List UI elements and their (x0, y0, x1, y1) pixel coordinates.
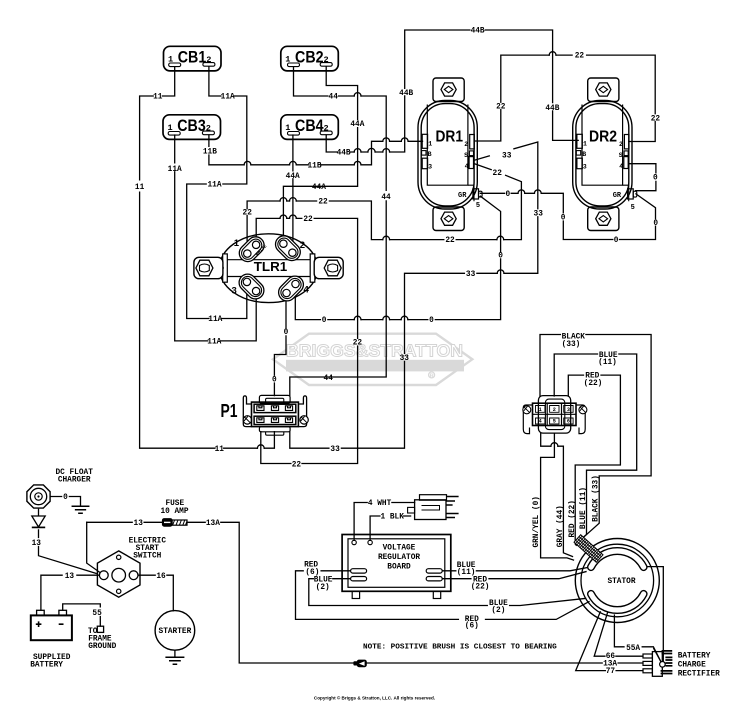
svg-text:44: 44 (329, 94, 339, 102)
svg-text:R: R (430, 373, 434, 379)
svg-text:22: 22 (445, 237, 455, 245)
svg-text:DR2: DR2 (589, 129, 617, 146)
wire hop on net 44 over 44A vertical at x=357.6 (354, 93, 361, 96)
svg-text:S: S (464, 152, 468, 159)
supplied battery (31, 610, 72, 640)
svg-text:22: 22 (651, 116, 661, 124)
wire net 0 : DR2 pin4 loop to DR2 GR (629, 164, 656, 191)
svg-text:11A: 11A (207, 339, 221, 347)
wire net 13 : battery plus to start switch (41, 575, 99, 610)
wire hops on net 22 at 283.4,292.9 (y=201) and 386.2,500.3 (y=239.6) (280, 198, 504, 240)
svg-text:4: 4 (304, 284, 310, 295)
svg-text:33: 33 (502, 152, 512, 160)
svg-text:0: 0 (63, 494, 68, 502)
svg-text:11A: 11A (221, 94, 235, 102)
svg-text:6: 6 (567, 418, 570, 424)
wire stator top-right tip to rectifier input (643, 567, 663, 662)
wire BLACK (33) : connector pin1 loop to stator bundle (540, 335, 651, 540)
TLR1 slot 4 (275, 273, 307, 305)
svg-text:44A: 44A (312, 184, 326, 192)
wire net 22 : TLR1 slot1 lower circle to DR1 pin4 (247, 164, 521, 251)
svg-text:11B: 11B (307, 162, 321, 170)
connector J3 (engine harness plug at regulator) (408, 495, 459, 520)
wire RED (22) : connector pin3 loop to stator bundle (568, 375, 620, 545)
wire net 33 : DR1 pin S diagonal down to P1 bottom-right pin (290, 142, 538, 448)
svg-text:44A: 44A (350, 121, 364, 129)
svg-text:(2): (2) (491, 607, 505, 615)
svg-text:B: B (582, 151, 586, 158)
duplex receptacle DR2 (573, 78, 637, 231)
wire net 66 : rectifier to stator (594, 612, 643, 656)
TLR1 slot 1 (236, 233, 268, 265)
stator wire bundle hatched band (574, 535, 603, 563)
svg-text:CB1: CB1 (178, 48, 207, 67)
svg-text:22: 22 (493, 170, 503, 178)
wire hops on net 44B at x=357.6,371.5,386.2 (354, 148, 389, 152)
svg-text:STARTER: STARTER (159, 628, 192, 636)
svg-text:2: 2 (324, 124, 329, 134)
svg-text:(11): (11) (598, 359, 617, 367)
wire hops on GR 0-line at 521.4,537.8 (518, 190, 541, 193)
wire net 0 : TLR1 slot4 right circle to DR1 GR via right vertical (295, 196, 500, 319)
svg-text:2: 2 (324, 55, 329, 65)
connector J2 (stator harness 6-pin) (523, 396, 587, 434)
svg-text:55A: 55A (626, 645, 640, 653)
wire net 44 : CB2 pin1 down to P1 top-right pin (290, 67, 386, 396)
svg-text:S: S (619, 152, 623, 159)
svg-text:3: 3 (583, 164, 587, 171)
battery charge rectifier (643, 648, 672, 676)
wire BLUE (2) : regulator left-bottom terminal loop to stator lower brush (309, 579, 586, 606)
wire net 0 : charger to ground (51, 497, 81, 507)
circuit breaker CB4 (281, 115, 339, 140)
svg-text:11A: 11A (208, 316, 222, 324)
wire net 44B : CB4 pin2 up over top to DR2 pin1 (326, 30, 578, 152)
svg-text:11B: 11B (203, 149, 217, 157)
svg-text:11A: 11A (207, 182, 221, 190)
svg-text:44B: 44B (337, 150, 351, 158)
svg-text:33: 33 (534, 211, 544, 219)
voltage regulator board (342, 535, 451, 599)
wire net 0 : DR1 GR line to DR2 GR loop (480, 193, 655, 239)
electric start switch (97, 551, 140, 597)
svg-text:0: 0 (322, 317, 327, 325)
DC float charger plug (27, 485, 50, 508)
svg-text:0: 0 (506, 191, 511, 199)
wire net 55 : battery minus to frame ground (63, 604, 101, 626)
svg-text:1: 1 (234, 238, 240, 249)
svg-text:2: 2 (300, 240, 305, 251)
wire GRAY (44) : connector pin4 to stator bundle (541, 433, 573, 556)
duplex receptacle DR1 (418, 78, 482, 231)
svg-text:22: 22 (353, 340, 363, 348)
svg-text:Copyright © Briggs & Stratton,: Copyright © Briggs & Stratton, LLC. All … (314, 694, 435, 700)
svg-text:BRIGGS&STRATTON: BRIGGS&STRATTON (286, 341, 463, 361)
svg-text:GRAY (44): GRAY (44) (557, 505, 565, 547)
stator (575, 539, 659, 623)
fuse 10 amp (162, 519, 187, 527)
svg-text:10 AMP: 10 AMP (160, 508, 188, 516)
svg-text:(2): (2) (316, 584, 330, 592)
wire net 55A : stator to rectifier (614, 615, 661, 662)
svg-text:11: 11 (153, 94, 163, 102)
stator upper slip-ring arc (591, 551, 644, 567)
svg-text:13: 13 (134, 520, 144, 528)
frame ground box symbol (97, 626, 103, 632)
svg-text:(22): (22) (584, 380, 603, 388)
svg-text:44A: 44A (286, 173, 300, 181)
svg-text:BLUE (11): BLUE (11) (580, 487, 588, 529)
svg-text:1: 1 (428, 141, 432, 148)
svg-text:22: 22 (243, 210, 253, 218)
svg-text:44B: 44B (545, 105, 559, 113)
svg-text:22: 22 (292, 461, 302, 469)
svg-text:GR: GR (613, 192, 622, 200)
svg-text:0: 0 (614, 237, 619, 245)
svg-text:(22): (22) (471, 584, 490, 592)
wire net 22 : TLR1 slot1 upper circle down to P1 bottom-left pin (256, 218, 357, 463)
stator lower slip-ring arc (591, 594, 644, 610)
wire net 11B : CB3 pin2 to DR1 pin1 (209, 135, 423, 165)
starter motor (155, 611, 195, 665)
svg-text:22: 22 (303, 216, 313, 224)
svg-text:BATTERY: BATTERY (30, 662, 63, 670)
svg-text:STATOR: STATOR (607, 578, 635, 586)
svg-text:33: 33 (330, 446, 340, 454)
svg-text:P1: P1 (221, 400, 238, 421)
wire BLUE (11) : connector pin2 loop to stator bundle (554, 354, 637, 542)
wire hops on net 22 at 283.4,292.9 (y=218.4) (280, 215, 296, 218)
wire GRN/YEL (0) : connector pin5 to stator bundle (541, 433, 574, 560)
svg-text:B: B (428, 151, 432, 158)
svg-text:5: 5 (631, 204, 635, 212)
svg-text:0: 0 (653, 220, 658, 228)
wire hops on net 11B at x=247.5,292.9,357.6 and on upper jog at 386.2,404.7 (244, 138, 408, 165)
svg-text:NOTE: POSITIVE BRUSH IS CLOSES: NOTE: POSITIVE BRUSH IS CLOSEST TO BEARI… (363, 644, 557, 652)
svg-text:REGULATOR: REGULATOR (378, 554, 420, 562)
svg-text:3: 3 (232, 286, 237, 297)
svg-text:FUSE: FUSE (165, 500, 184, 508)
wire net 0 : TLR1 slot4 left circle to P1 top-center pin (274, 297, 286, 395)
inline connector on 13A lead (353, 660, 366, 668)
svg-text:3: 3 (428, 164, 432, 171)
wire net 77 : rectifier to stator (576, 612, 643, 671)
svg-text:33: 33 (400, 355, 410, 363)
svg-text:77: 77 (606, 668, 616, 676)
svg-text:CB3: CB3 (177, 116, 206, 135)
wire net 13/13A : fuse line across to rectifier (87, 522, 643, 663)
TLR1 slot 3 (236, 271, 268, 303)
svg-text:GR: GR (458, 192, 467, 200)
svg-text:2: 2 (464, 141, 468, 148)
svg-text:16: 16 (156, 573, 166, 581)
wire hop on net 11 over 22 vertical at x=260.8 (257, 445, 264, 448)
svg-text:5: 5 (476, 202, 480, 210)
svg-text:11: 11 (135, 184, 145, 192)
svg-text:BATTERY: BATTERY (678, 652, 711, 660)
svg-text:2: 2 (619, 141, 623, 148)
svg-text:44B: 44B (399, 90, 413, 98)
svg-text:0: 0 (498, 253, 503, 261)
wire net 11 : CB1 pin1 to P1 bottom-center (140, 67, 275, 449)
svg-text:22: 22 (575, 53, 585, 61)
ground symbol (charger) (72, 506, 88, 513)
svg-text:TLR1: TLR1 (254, 259, 288, 274)
wire 4 WHT : regulator top to small connector (354, 503, 415, 541)
svg-text:DR1: DR1 (436, 129, 464, 146)
svg-text:0: 0 (284, 329, 289, 337)
svg-text:4: 4 (619, 163, 623, 170)
wire RED (6) : regulator left-top terminal loop to stator lower brush (296, 571, 590, 620)
svg-text:VOLTAGE: VOLTAGE (383, 544, 416, 552)
svg-text:1 BLK: 1 BLK (380, 514, 404, 522)
svg-text:CHARGE: CHARGE (678, 661, 706, 669)
svg-text:44: 44 (324, 375, 334, 383)
svg-text:RED (22): RED (22) (569, 500, 577, 537)
svg-text:(6): (6) (465, 623, 479, 631)
wire net 16 : start switch to starter (138, 575, 173, 611)
circuit breaker CB1 (164, 46, 222, 71)
svg-text:GRN/YEL (0): GRN/YEL (0) (533, 496, 541, 547)
wire RED (22) : regulator right-bottom terminal to stator upper brush (442, 572, 586, 579)
svg-text:4: 4 (539, 418, 542, 424)
wire 1 BLK : regulator top to small connector (370, 516, 411, 540)
svg-text:4: 4 (465, 163, 469, 170)
wire net 13 : fuse drop to start switch (87, 522, 100, 572)
svg-text:5: 5 (553, 418, 556, 424)
svg-text:SUPPLIED: SUPPLIED (33, 654, 71, 662)
svg-text:0: 0 (272, 376, 277, 384)
wire hop on net 33 over 0 vertical at x=500.6 (497, 270, 504, 273)
svg-text:11: 11 (215, 446, 225, 454)
svg-text:SWITCH: SWITCH (133, 553, 161, 561)
svg-text:13: 13 (65, 573, 75, 581)
svg-text:44B: 44B (471, 28, 485, 36)
wire net 44A : CB4 pin1 branch down to TLR1 slot2 right circle (292, 135, 294, 249)
circuit breaker CB2 (281, 46, 339, 71)
circuit breaker CB3 (163, 115, 221, 140)
wire net 11A : CB1 pin2 to TLR1 slot3 upper circle (187, 67, 247, 319)
wire hop on 22 top over 44B vertical at x=552.6 (549, 52, 556, 55)
svg-text:BOARD: BOARD (387, 564, 411, 572)
svg-text:BLACK (33): BLACK (33) (592, 475, 600, 522)
svg-text:22: 22 (318, 199, 328, 207)
svg-text:44: 44 (381, 194, 391, 202)
svg-text:55: 55 (92, 610, 102, 618)
svg-text:1: 1 (583, 141, 587, 148)
svg-text:0: 0 (561, 214, 566, 222)
twist-lock receptacle TLR1 (194, 232, 343, 304)
watermark Briggs & Stratton logo (273, 334, 472, 385)
wire hops on net 0 line y=319.6 at 357.6,386.2,404.5 (354, 316, 408, 319)
svg-text:11A: 11A (168, 166, 182, 174)
wire net 22 top : DR1 pin2 to DR2 pin2 (474, 55, 655, 141)
svg-text:2: 2 (206, 124, 211, 134)
wire hop on GRAY jog over pin5 wire at x=554.4 (551, 443, 558, 446)
TLR1 slot 2 (272, 232, 304, 264)
svg-text:GROUND: GROUND (88, 643, 116, 651)
svg-text:33: 33 (466, 271, 476, 279)
svg-text:0: 0 (429, 317, 434, 325)
svg-text:2: 2 (206, 55, 211, 65)
svg-text:13A: 13A (206, 520, 220, 528)
svg-text:(33): (33) (562, 341, 581, 349)
svg-text:66: 66 (606, 653, 616, 661)
label BATTERY CHARGE RECTIFIER (678, 652, 720, 678)
svg-text:0: 0 (653, 175, 658, 183)
wire net 13 : charger through diode to start switch (39, 509, 97, 573)
svg-text:22: 22 (496, 104, 506, 112)
svg-text:13: 13 (32, 540, 42, 548)
wire BLUE (11) : regulator right-top terminal to stator upper brush (442, 567, 588, 570)
wire net 44A : CB2 pin2 to TLR1 slot2 left circle (283, 67, 357, 240)
svg-text:4 WHT: 4 WHT (368, 500, 392, 508)
wire net 11A : CB3 pin1 to TLR1 slot3 lower circle (175, 135, 257, 341)
svg-text:RECTIFIER: RECTIFIER (678, 670, 720, 678)
diode (charger) (32, 516, 45, 527)
connector P1 (221, 395, 309, 435)
svg-text:CHARGER: CHARGER (58, 477, 91, 485)
